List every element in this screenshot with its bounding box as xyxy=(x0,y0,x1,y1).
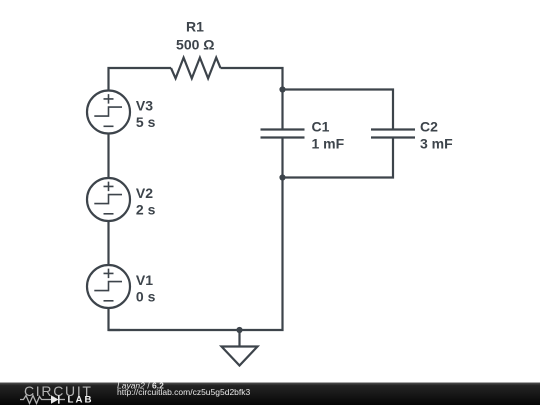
svg-text:5 s: 5 s xyxy=(136,114,156,130)
footer bar xyxy=(0,383,540,405)
svg-text:3 mF: 3 mF xyxy=(420,135,453,151)
svg-text:500 Ω: 500 Ω xyxy=(176,37,214,53)
node B dot xyxy=(279,174,285,180)
wire: V2 to V1 xyxy=(107,221,109,265)
wire: V1 down to bottom-left corner xyxy=(109,308,121,330)
voltage source V1 xyxy=(87,265,156,308)
svg-text:1 mF: 1 mF xyxy=(312,135,345,151)
wire: top branch to C2 xyxy=(283,90,394,130)
capacitor C2 xyxy=(371,119,453,152)
svg-text:C1: C1 xyxy=(312,119,330,135)
capacitor C1 xyxy=(261,119,345,152)
wire: node A down to C1 xyxy=(281,90,283,130)
svg-text:V1: V1 xyxy=(136,272,153,288)
wire: left vertical top segment + top horizontal to R1 xyxy=(109,68,172,91)
voltage source V2 xyxy=(87,178,156,221)
wire: node B down to bottom corner and bottom horizontal to V1 xyxy=(109,178,283,331)
svg-text:2 s: 2 s xyxy=(136,201,156,217)
wire: C2 down and back to node B xyxy=(283,138,394,178)
svg-text:V3: V3 xyxy=(136,97,153,113)
node C dot (ground junction) xyxy=(236,327,242,333)
svg-text:http://circuitlab.com/cz5u5g5d: http://circuitlab.com/cz5u5g5d2bfk3 xyxy=(117,387,251,397)
ground xyxy=(222,330,258,366)
voltage source V3 xyxy=(87,91,156,134)
resistor R1 xyxy=(171,19,221,79)
svg-text:LAB: LAB xyxy=(68,395,94,405)
wire: V3 to V2 xyxy=(107,134,109,179)
logo resistor-diode squiggle xyxy=(20,395,65,403)
wire: C1 down to node B xyxy=(281,138,283,178)
svg-text:R1: R1 xyxy=(186,19,204,35)
svg-text:V2: V2 xyxy=(136,185,153,201)
svg-text:C2: C2 xyxy=(420,119,438,135)
svg-text:0 s: 0 s xyxy=(136,288,156,304)
wire: top horizontal right of R1 + right vertical down to node A xyxy=(221,68,283,90)
node A dot xyxy=(279,86,285,92)
